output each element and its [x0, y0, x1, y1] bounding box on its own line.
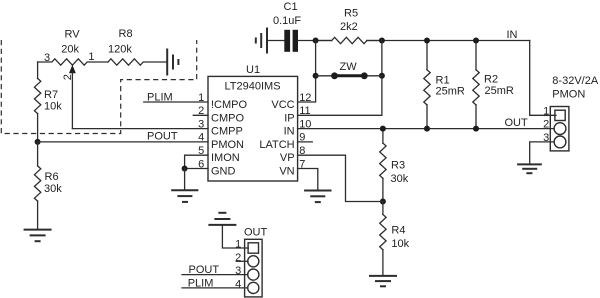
svg-text:LATCH: LATCH	[259, 139, 294, 151]
svg-text:30k: 30k	[44, 183, 62, 195]
wire VP pin 8	[298, 155, 383, 201]
svg-text:CMPO: CMPO	[211, 112, 244, 124]
svg-text:R8: R8	[119, 28, 133, 40]
ground (inverted, OUT connector pin 1)	[208, 213, 236, 225]
svg-text:VP: VP	[280, 152, 295, 164]
svg-text:IMON: IMON	[211, 152, 240, 164]
svg-text:1: 1	[88, 51, 94, 63]
svg-text:PMON: PMON	[552, 89, 585, 101]
svg-text:R3: R3	[391, 160, 405, 172]
wire IMON pin 5	[185, 155, 208, 168]
svg-text:2: 2	[62, 74, 74, 80]
node R3 top junction	[380, 126, 386, 132]
ground (C1, rotated left)	[256, 28, 267, 54]
svg-text:ZW: ZW	[340, 61, 358, 73]
resistor R1	[424, 41, 465, 129]
svg-text:8-32V/2A: 8-32V/2A	[552, 75, 599, 87]
node R2 bottom junction	[473, 126, 479, 132]
svg-text:10k: 10k	[44, 101, 62, 113]
node POUT junction	[35, 139, 41, 145]
connector J1 8-32V/2A PMON	[550, 75, 599, 151]
ground (R8, rotated right)	[167, 49, 178, 76]
svg-text:PMON: PMON	[211, 139, 244, 151]
node pin5/6 junction	[182, 166, 188, 172]
resistor R4	[380, 202, 410, 276]
node PLIM wire to pin 1	[144, 101, 208, 103]
U1 left pin labels	[211, 99, 248, 178]
connector J2 OUT	[244, 226, 268, 297]
svg-text:LT2940IMS: LT2940IMS	[225, 81, 281, 93]
svg-text:POUT: POUT	[189, 264, 220, 276]
svg-text:C1: C1	[284, 1, 298, 13]
resistor R2	[473, 41, 514, 129]
svg-text:PLIM: PLIM	[147, 92, 173, 104]
wire to ground	[184, 169, 186, 191]
ground (VN)	[304, 191, 331, 203]
svg-text:R7: R7	[44, 89, 58, 101]
svg-text:2: 2	[235, 252, 241, 264]
U1 right pin labels	[259, 99, 294, 178]
svg-text:VCC: VCC	[271, 99, 294, 111]
svg-text:R1: R1	[436, 75, 450, 87]
svg-text:IN: IN	[284, 126, 295, 138]
ground (R4)	[369, 276, 397, 286]
wire pin 2 stub	[193, 114, 208, 116]
node R3/R4 junction	[380, 199, 386, 205]
jumper ZW	[316, 61, 382, 79]
svg-text:OUT: OUT	[505, 117, 529, 129]
wire VN pin 7	[298, 169, 318, 191]
svg-text:IN: IN	[507, 29, 518, 41]
svg-text:1: 1	[235, 239, 241, 251]
svg-text:3: 3	[198, 118, 204, 130]
svg-text:R4: R4	[391, 225, 405, 237]
node R1 top junction	[424, 38, 430, 44]
resistor R3	[380, 129, 409, 202]
svg-text:PLIM: PLIM	[188, 278, 214, 290]
wire J1 pin 3 to ground	[530, 142, 554, 163]
node junction R5 right	[379, 38, 385, 44]
svg-text:1: 1	[543, 105, 549, 117]
svg-text:2k2: 2k2	[340, 21, 358, 33]
svg-text:3: 3	[44, 52, 50, 64]
svg-text:OUT: OUT	[244, 226, 268, 238]
capacitor C1	[267, 1, 301, 52]
svg-text:10k: 10k	[391, 238, 409, 250]
svg-text:0.1uF: 0.1uF	[273, 15, 301, 27]
resistor R5	[316, 7, 382, 43]
svg-text:25mR: 25mR	[436, 86, 465, 98]
svg-text:R6: R6	[45, 171, 59, 183]
potentiometer RV	[38, 28, 108, 65]
resistor R7	[34, 62, 62, 142]
svg-text:CMPP: CMPP	[211, 126, 243, 138]
svg-text:3: 3	[235, 265, 241, 277]
svg-text:IP: IP	[284, 112, 294, 124]
ground (R6)	[24, 230, 52, 242]
svg-text:POUT: POUT	[147, 130, 178, 142]
wire RV wiper to CMPP pin 3	[72, 128, 208, 130]
svg-text:120k: 120k	[108, 43, 132, 55]
node R2 top junction	[473, 38, 479, 44]
svg-text:2: 2	[543, 119, 549, 131]
node R1 bottom junction	[424, 126, 430, 132]
node ZW left junction	[313, 73, 319, 79]
module boundary dashed outline	[1, 40, 196, 134]
svg-text:1: 1	[198, 92, 204, 104]
RV wiper arrow and pin 2	[62, 65, 76, 129]
op-amp U1 LT2940IMS body	[208, 64, 298, 181]
wire PLIM to J2 pin 4	[182, 287, 248, 289]
svg-text:VN: VN	[279, 166, 294, 178]
svg-text:30k: 30k	[391, 173, 409, 185]
svg-text:RV: RV	[65, 28, 81, 40]
wire pin 9 stub	[298, 141, 313, 143]
svg-text:R5: R5	[344, 7, 358, 19]
node junction R5 left	[313, 38, 319, 44]
wire J2 pin 2 stub	[236, 260, 248, 262]
svg-text:4: 4	[235, 278, 241, 290]
wire POUT to PMON pin 4	[38, 141, 208, 143]
svg-text:GND: GND	[211, 166, 236, 178]
svg-text:4: 4	[198, 132, 204, 144]
wire ground to J2 pin 1	[222, 225, 248, 248]
wire IN drop to connector	[530, 41, 556, 116]
wire OUT rail from pin 10	[298, 128, 554, 130]
svg-text:20k: 20k	[61, 44, 79, 56]
svg-text:U1: U1	[246, 64, 260, 76]
wire IP pin 11	[298, 41, 382, 116]
svg-text:!CMPO: !CMPO	[211, 99, 248, 111]
resistor R8	[108, 28, 167, 65]
wire POUT to J2 pin 3	[182, 274, 248, 276]
wire VCC pin 12	[298, 41, 316, 103]
ground (J1)	[517, 164, 542, 173]
node ZW right junction	[379, 73, 385, 79]
resistor R6	[34, 142, 62, 230]
svg-text:R2: R2	[484, 74, 498, 86]
svg-text:25mR: 25mR	[485, 85, 514, 97]
wire GND pin 6	[185, 168, 208, 170]
ground (U1 GND)	[171, 190, 198, 202]
wire top rail IN net	[298, 40, 332, 42]
